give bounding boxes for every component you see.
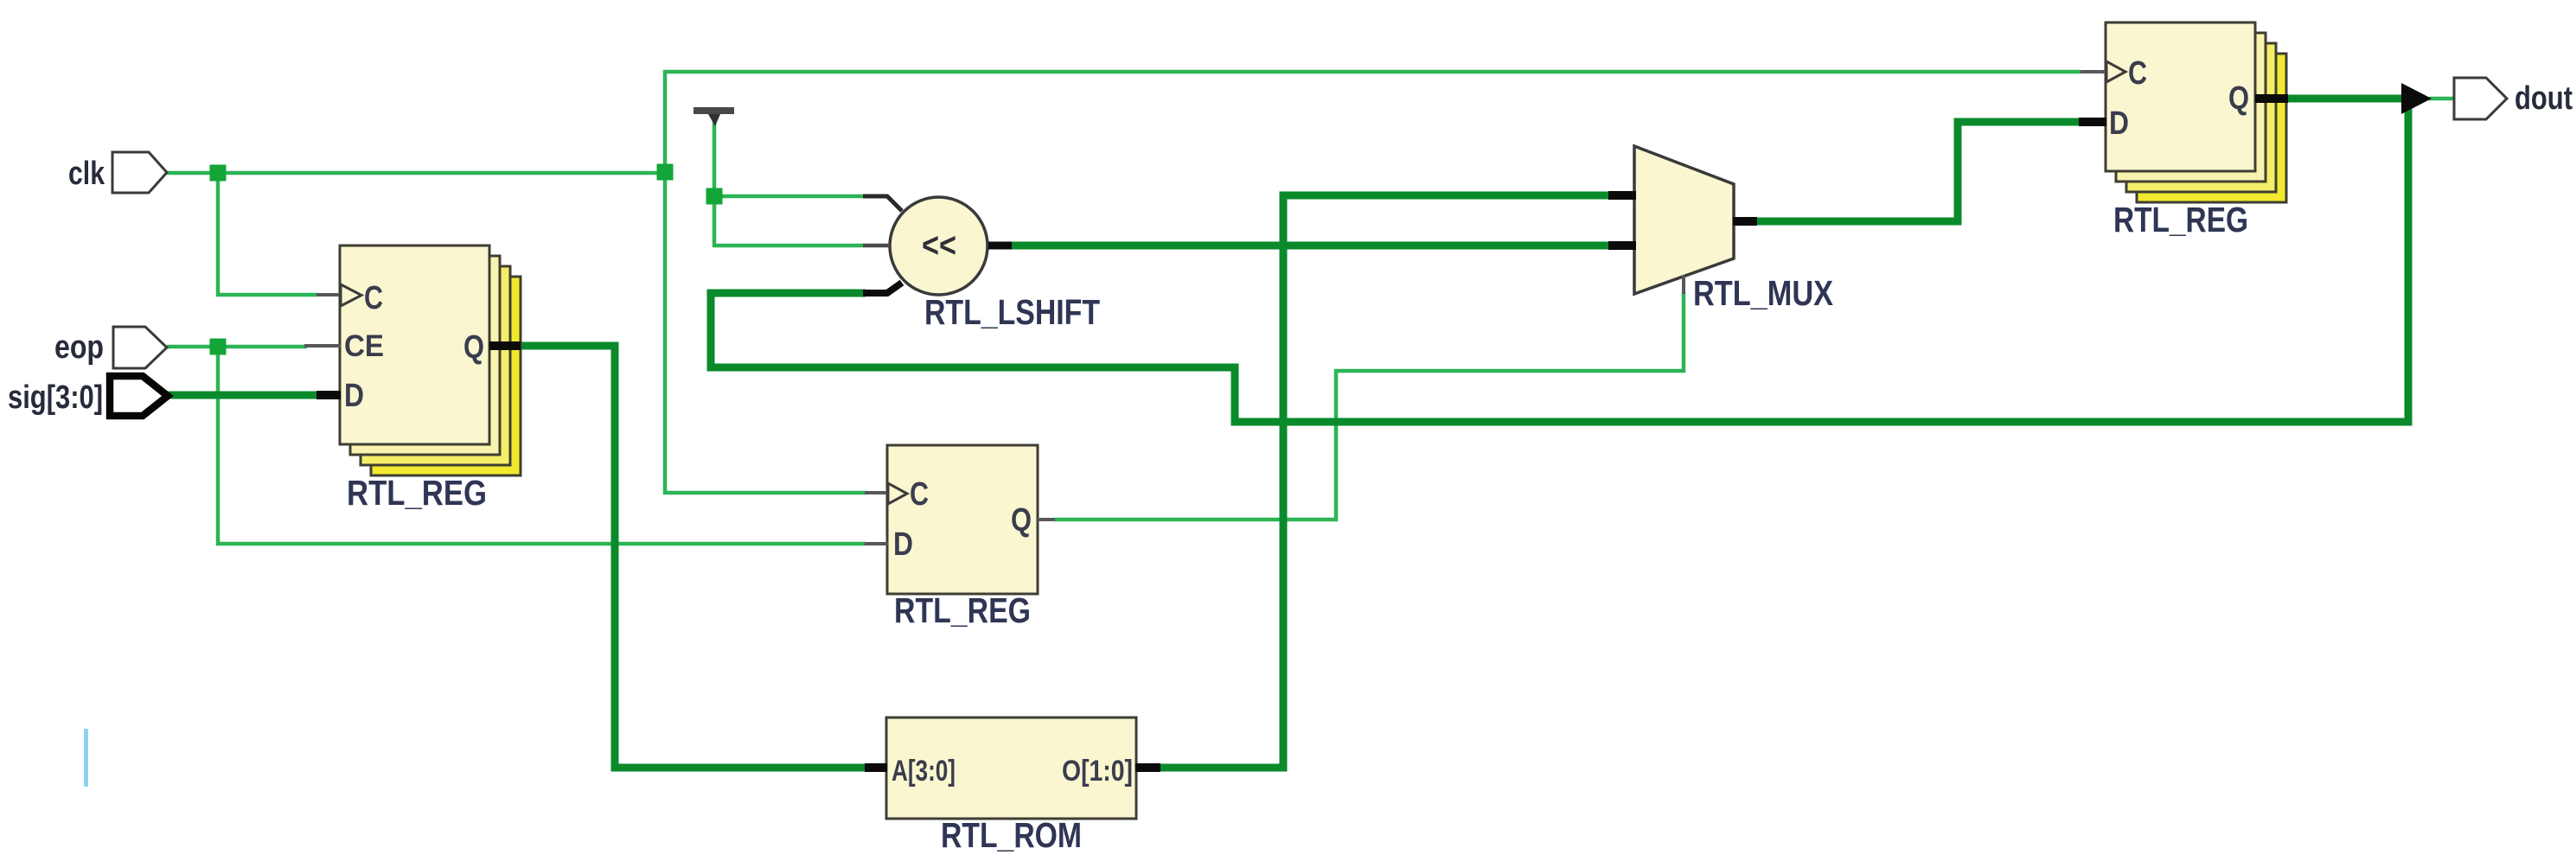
svg-text:D: D (893, 526, 913, 563)
port label dout (2515, 80, 2573, 117)
pin stub shifter input 2 (863, 244, 890, 248)
wire const to shifter input 1 (714, 195, 864, 199)
bus ROM O[1:0] to mux input 1 (1160, 195, 1609, 768)
shifter operator glyph (922, 226, 956, 265)
svg-text:C: C (2128, 55, 2147, 92)
svg-text:clk: clk (68, 156, 105, 192)
wire mux select from middle register Q (1054, 292, 1684, 520)
pin stub right register D (bus) (2079, 118, 2106, 126)
pin label A[3:0] rom (892, 755, 956, 788)
pin stub left register Q (bus) (489, 341, 521, 350)
clock triangle left register (341, 284, 361, 306)
pin label C left register (364, 280, 383, 316)
junction D const net (706, 188, 723, 205)
bus left register Q to ROM A[3:0] (519, 346, 866, 768)
bus feedback from dout node to shifter input 3 (711, 100, 2408, 422)
pin label D middle register (893, 526, 913, 563)
label RTL_LSHIFT (924, 292, 1100, 332)
svg-text:Q: Q (1011, 502, 1032, 539)
output port dout (2454, 78, 2507, 119)
input port clk (112, 152, 167, 193)
svg-text:Q: Q (463, 329, 484, 366)
junction A clk (210, 165, 227, 182)
wire clk branch down to middle register C (665, 170, 866, 493)
svg-text:D: D (2109, 105, 2129, 142)
pin stub sig D (bus) (316, 391, 341, 399)
bus mux output to right register D (1757, 122, 2080, 221)
blue scrollbar tick (84, 729, 88, 787)
svg-text:RTL_LSHIFT: RTL_LSHIFT (924, 292, 1100, 332)
pin label O[1:0] rom (1062, 755, 1133, 788)
port label eop (54, 329, 104, 366)
wire clk up and along top to right register C (665, 72, 2081, 175)
pin label D left register (344, 378, 364, 414)
pin stub mux input 2 (bus) (1608, 241, 1636, 250)
bus right register Q to output arrow (2286, 95, 2402, 103)
pin stub mux input 1 (bus) (1608, 191, 1636, 200)
pin stub middle register Q (1038, 518, 1055, 521)
pin label Q right register (2228, 80, 2249, 117)
label RTL_MUX (1693, 273, 1833, 313)
register RTL_REG U3 (middle) (887, 445, 1038, 594)
svg-text:C: C (364, 280, 383, 316)
clock triangle middle register (888, 483, 907, 504)
input port eop (113, 327, 167, 368)
rom RTL_ROM U6 (886, 717, 1136, 819)
junction C eop (210, 339, 227, 355)
clock triangle right register (2106, 61, 2125, 82)
register stack RTL_REG U1 (left, 4 deep) (340, 246, 521, 475)
label RTL_REG left (347, 473, 487, 513)
const generator symbol (694, 107, 734, 126)
label RTL_REG middle (894, 590, 1031, 630)
pin stub middle register D (865, 542, 888, 545)
register stack RTL_REG U5 (right, 4 deep) (2106, 22, 2286, 202)
svg-text:O[1:0]: O[1:0] (1062, 755, 1133, 788)
svg-text:RTL_REG: RTL_REG (894, 590, 1031, 630)
svg-text:RTL_REG: RTL_REG (347, 473, 487, 513)
pin stub shifter output (bus) (988, 242, 1012, 250)
wire arrow to dout port (2429, 97, 2455, 101)
pin stub right register C (2081, 70, 2106, 73)
svg-text:RTL_ROM: RTL_ROM (941, 815, 1082, 855)
pin stub mux select (1682, 276, 1685, 294)
svg-text:RTL_REG: RTL_REG (2113, 200, 2248, 239)
pin label Q middle register (1011, 502, 1032, 539)
pin stub shifter input 1 (863, 196, 902, 211)
junction B clk (657, 164, 674, 181)
svg-text:eop: eop (54, 329, 104, 366)
pin stub mux output (bus) (1733, 217, 1757, 226)
port label clk (68, 156, 105, 192)
input bus port sig[3:0] (110, 376, 168, 416)
svg-text:CE: CE (344, 329, 384, 363)
pin stub middle register C (865, 491, 888, 494)
pin label C middle register (910, 476, 929, 513)
wire clk from port to junction B (167, 171, 663, 175)
svg-text:C: C (910, 476, 929, 513)
pin label Q left register (463, 329, 484, 366)
svg-text:RTL_MUX: RTL_MUX (1693, 273, 1833, 313)
mux RTL_MUX U4 (1634, 146, 1734, 294)
shifter RTL_LSHIFT U2 (890, 197, 988, 295)
label RTL_ROM (941, 815, 1082, 855)
pin label CE left register (344, 329, 384, 363)
bus shifter output to mux input 2 (1010, 242, 1609, 250)
label RTL_REG right (2113, 200, 2248, 239)
svg-text:dout: dout (2515, 80, 2573, 117)
pin label D right register (2109, 105, 2129, 142)
pin stub shifter input 3 (bus) (863, 283, 902, 293)
pin stub left register CE (304, 344, 341, 348)
pin stub ROM O[1:0] (bus) (1135, 763, 1160, 772)
wire const down to shifter input 2 (714, 198, 864, 246)
pin label C right register (2128, 55, 2147, 92)
pin stub right register Q (bus) (2255, 94, 2288, 103)
wire clk branch down to left register C (218, 175, 317, 295)
pin stub ROM A[3:0] (bus) (865, 763, 887, 772)
arrowhead at dout node (2401, 83, 2432, 114)
svg-text:A[3:0]: A[3:0] (892, 755, 956, 788)
wire eop branch down to middle register D (218, 348, 866, 544)
wire eop from port to left register CE (167, 345, 307, 349)
port label sig[3:0] (8, 379, 103, 416)
svg-text:Q: Q (2228, 80, 2249, 117)
bus sig[3:0] from port to left register D (168, 392, 317, 399)
svg-text:sig[3:0]: sig[3:0] (8, 379, 103, 416)
svg-text:<<: << (922, 226, 956, 265)
wire const stem (713, 119, 717, 195)
pin stub left register C (316, 293, 341, 297)
svg-text:D: D (344, 378, 364, 414)
